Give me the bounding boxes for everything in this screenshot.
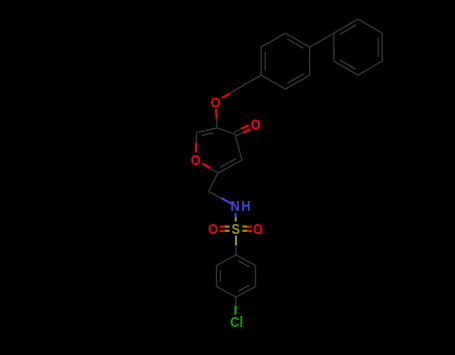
svg-text:O: O — [208, 220, 218, 237]
svg-text:l: l — [239, 313, 243, 330]
svg-text:O: O — [253, 220, 263, 237]
svg-text:O: O — [191, 151, 201, 168]
svg-text:N: N — [231, 197, 240, 214]
svg-text:O: O — [251, 115, 261, 132]
svg-text:H: H — [241, 197, 250, 214]
svg-text:O: O — [211, 93, 221, 110]
svg-text:S: S — [232, 220, 240, 237]
svg-text:C: C — [230, 313, 239, 330]
